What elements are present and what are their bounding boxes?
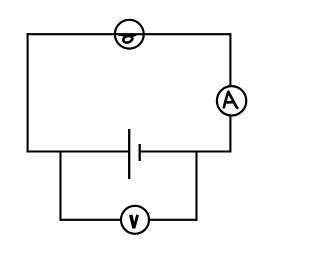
lamp L1 filament exit stroke xyxy=(130,35,135,37)
wire top (left node to right node through lamp) xyxy=(27,33,232,35)
wire bottom left (to battery positive) xyxy=(27,150,130,152)
wire left side xyxy=(27,33,29,152)
lamp L1 filament entry stroke xyxy=(119,35,128,37)
voltmeter label V xyxy=(131,215,138,228)
wire voltmeter branch right vertical xyxy=(195,151,197,221)
voltmeter U2 circle xyxy=(121,206,149,234)
lamp L1 filament loop xyxy=(122,35,133,44)
wire voltmeter branch left vertical xyxy=(59,151,61,221)
ammeter label A xyxy=(224,92,237,108)
battery cell short plate (negative) xyxy=(139,144,141,161)
ammeter U1 circle xyxy=(217,86,246,115)
wire bottom right (battery negative to right node) xyxy=(140,150,232,152)
battery cell long plate (positive) xyxy=(128,129,130,179)
wire right side xyxy=(229,33,231,152)
wire voltmeter branch bottom horizontal xyxy=(60,219,198,221)
lamp L1 circle xyxy=(115,20,144,49)
